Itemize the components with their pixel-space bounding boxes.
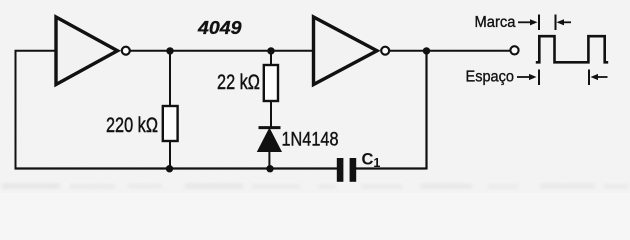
wire bottom left segment [15, 167, 338, 169]
svg-text:1N4148: 1N4148 [282, 129, 339, 151]
wire feedback left vertical [15, 51, 17, 169]
tick marca left [538, 15, 540, 31]
arrow marca left [557, 19, 572, 25]
arrow marca right [518, 19, 538, 25]
wire input to first inverter [15, 50, 57, 52]
tick marca right [555, 15, 557, 31]
resistor 220k [163, 51, 178, 169]
svg-text:4049: 4049 [197, 18, 242, 38]
resistor 22k [264, 51, 278, 128]
svg-text:22 kΩ: 22 kΩ [217, 71, 260, 94]
node junction top above 220k resistor [166, 47, 173, 54]
node junction bottom 220k [166, 165, 173, 172]
waveform mark-space square wave [536, 36, 608, 62]
node junction top above 22k resistor [267, 47, 274, 54]
diode D1 [258, 128, 282, 169]
wire between inverters [128, 50, 314, 52]
wire output feedback right vertical [425, 51, 427, 170]
capacitor C1 [337, 158, 356, 182]
tick espaco left [538, 70, 540, 86]
svg-text:Espaço: Espaço [466, 68, 515, 85]
arrow espaco left [591, 74, 608, 80]
inverter U1b [314, 17, 390, 85]
tick espaco right [588, 70, 590, 86]
node junction bottom diode [266, 165, 273, 172]
inverter U1a [56, 17, 130, 85]
output terminal [510, 46, 518, 54]
wire bottom right segment [356, 167, 427, 169]
wire output to terminal [389, 50, 511, 52]
scan smudge band bottom [2, 183, 628, 189]
node junction output [423, 47, 430, 54]
svg-text:220 kΩ: 220 kΩ [106, 114, 158, 137]
arrow espaco right [517, 74, 537, 80]
svg-text:Marca: Marca [475, 14, 516, 31]
